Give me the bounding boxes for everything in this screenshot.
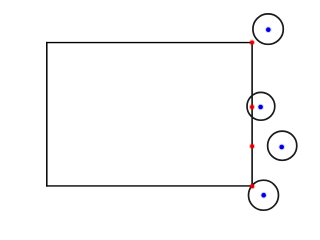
blue center dot B4 bbox=[260, 192, 267, 199]
blue center dot B2 bbox=[257, 104, 264, 111]
red contact dot R2 bbox=[249, 104, 255, 110]
red contact dot R4 bbox=[249, 183, 255, 189]
red contact dot R1 bbox=[249, 39, 255, 45]
box wall left edge bbox=[46, 42, 48, 187]
red contact dot R3 bbox=[249, 143, 255, 149]
blue center dot B1 bbox=[265, 26, 272, 33]
box wall right edge bbox=[251, 42, 253, 187]
box wall top edge bbox=[46, 42, 253, 44]
circle D4 bbox=[249, 180, 279, 210]
circle D1 bbox=[253, 14, 283, 44]
box wall bottom edge bbox=[46, 185, 253, 187]
circle D2 bbox=[247, 92, 275, 120]
blue center dot B3 bbox=[278, 144, 285, 151]
circle D3 bbox=[268, 131, 297, 160]
